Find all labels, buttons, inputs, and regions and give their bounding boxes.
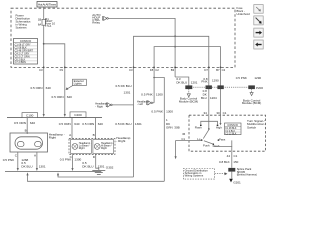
- splice pack symbol: [228, 168, 235, 172]
- lamp1 bottom terminals: [17, 152, 19, 154]
- lamp2 wire D to ground: [96, 156, 99, 170]
- contact high: [217, 125, 219, 126]
- driver2 headlamp left: [137, 99, 153, 106]
- wire driver1 to W3: [112, 104, 133, 106]
- svg-text:7.5 A: 7.5 A: [45, 24, 52, 28]
- connector name box C100: [22, 113, 38, 118]
- svg-text:640: 640: [74, 122, 79, 126]
- svg-text:CONN ID: CONN ID: [227, 124, 238, 127]
- svg-text:GRN: GRN: [166, 125, 173, 129]
- wire lamp1 park feed 0.5 ORN 640: [26, 118, 28, 133]
- svg-text:C3 12 BLK: C3 12 BLK: [225, 133, 237, 135]
- svg-text:Switch: Switch: [247, 125, 256, 129]
- svg-text:1204: 1204: [210, 96, 217, 100]
- svg-text:C3: C3: [39, 68, 43, 72]
- svg-text:Right: Right: [79, 147, 85, 150]
- svg-text:G302: G302: [106, 165, 114, 169]
- switch lever2: [204, 141, 213, 144]
- svg-text:DK BLU: DK BLU: [21, 164, 32, 168]
- high beam lamp element: [93, 140, 114, 154]
- svg-text:Systems: Systems: [16, 26, 28, 30]
- svg-text:C1: C1: [234, 154, 238, 158]
- contact lo: [201, 139, 203, 141]
- wire 30 into high: [220, 115, 222, 123]
- fuse HDLP 7.5A: [38, 17, 56, 28]
- contact flash: [200, 125, 202, 126]
- contact pass: [218, 139, 220, 141]
- low beam lamp element: [71, 140, 92, 154]
- tee1 wire: [134, 36, 209, 67]
- svg-text:- Left: - Left: [137, 102, 143, 106]
- wire pass to ground exit: [214, 140, 232, 146]
- svg-text:0.5 ORN: 0.5 ORN: [14, 121, 26, 125]
- conn id table switch: [225, 123, 242, 135]
- svg-text:0.5 ORN: 0.5 ORN: [52, 95, 64, 99]
- bulb symbol: [15, 137, 43, 149]
- turn signal multifunction switch dashed box: [189, 115, 266, 151]
- svg-text:640: 640: [98, 122, 103, 126]
- ground G302: [92, 165, 113, 174]
- svg-text:CONN ID: CONN ID: [20, 39, 31, 43]
- wire splice to ground: [231, 172, 233, 179]
- svg-text:C1: C1: [223, 111, 227, 115]
- svg-text:0.5 ORN: 0.5 ORN: [30, 86, 42, 90]
- wire fuse to terminal C3: [43, 25, 45, 67]
- svg-text:1301: 1301: [98, 165, 105, 169]
- svg-text:High: High: [216, 126, 222, 130]
- svg-text:1B: 1B: [38, 18, 42, 22]
- svg-text:0.5 PNK: 0.5 PNK: [3, 158, 15, 162]
- svg-text:1300: 1300: [166, 109, 173, 113]
- svg-text:- Right: - Right: [95, 104, 103, 108]
- bus B pnk return: [28, 174, 165, 182]
- connector line C100: [7, 117, 102, 119]
- svg-text:Relay: Relay: [92, 21, 100, 25]
- svg-text:0.5 ORN: 0.5 ORN: [59, 122, 71, 126]
- svg-text:P200: P200: [256, 86, 263, 90]
- svg-text:C7 2 BRN: C7 2 BRN: [15, 61, 26, 64]
- svg-text:6A: 6A: [38, 22, 42, 26]
- lamp1 wire C 0.5 PNK: [17, 154, 19, 169]
- wire W2 0.5 ORN 640: [64, 67, 66, 114]
- svg-text:F9: F9: [60, 68, 64, 72]
- svg-text:- Right: - Right: [116, 139, 125, 143]
- splice pin W7: [217, 85, 223, 89]
- svg-text:B7: B7: [216, 68, 220, 72]
- svg-text:640: 640: [46, 86, 51, 90]
- svg-text:Push: Push: [203, 143, 210, 147]
- junction dot: [43, 43, 45, 45]
- svg-text:C1: C1: [181, 137, 185, 141]
- svg-text:Underhood: Underhood: [237, 12, 251, 16]
- bus A dk blu return: [58, 174, 134, 177]
- svg-text:C200: C200: [74, 113, 82, 117]
- svg-text:Wiring Systems: Wiring Systems: [185, 173, 204, 177]
- wire W4b branch 0.5 PNK 1300: [154, 78, 164, 182]
- dashed stub arrow BCM right: [251, 89, 253, 92]
- nav button prev: [254, 40, 263, 49]
- splice pin W6: [206, 85, 212, 89]
- tag Ground Distribution: [183, 168, 227, 179]
- svg-text:F8: F8: [150, 68, 154, 72]
- svg-text:1301: 1301: [124, 90, 131, 94]
- dashed stub and arrow to BCM: [188, 89, 190, 93]
- wire W1 0.5 ORN 640: [43, 67, 45, 114]
- connector id table: [14, 39, 38, 65]
- lamp2 wire C 0.5 PNK 1300: [72, 156, 74, 168]
- svg-text:(Behind Harness): (Behind Harness): [237, 173, 257, 177]
- switch feed tee: [208, 115, 210, 121]
- svg-text:0.5 PNK: 0.5 PNK: [141, 92, 153, 96]
- wire W4a 0.5 PNK 1300: [153, 67, 155, 102]
- svg-text:C100: C100: [26, 113, 34, 117]
- branch wire to terminal F9: [44, 44, 65, 68]
- connector pins on fuse block border: [43, 67, 221, 68]
- note Power Distribution Schematics in Wiring Systems: [16, 13, 31, 29]
- svg-text:1300: 1300: [156, 92, 163, 96]
- svg-text:0.5 PNK: 0.5 PNK: [60, 158, 72, 162]
- svg-text:30: 30: [216, 111, 220, 115]
- svg-text:34: 34: [203, 111, 207, 115]
- svg-text:150: 150: [233, 160, 238, 164]
- svg-text:1201: 1201: [191, 80, 198, 84]
- svg-text:44: 44: [227, 154, 231, 158]
- svg-text:Pass: Pass: [219, 137, 226, 141]
- wire relay output to feed: [108, 18, 175, 77]
- lamp1 wire A 0.5 DK BLU 1301: [36, 154, 38, 169]
- svg-text:Lights: Lights: [74, 82, 83, 86]
- svg-text:Right: Right: [101, 147, 107, 150]
- svg-text:640: 640: [67, 95, 72, 99]
- ground wire 0.8 BLK 150: [231, 151, 233, 168]
- svg-text:0.8 BLK: 0.8 BLK: [219, 160, 230, 164]
- svg-text:640: 640: [30, 121, 35, 125]
- svg-text:0.5 PNK: 0.5 PNK: [151, 109, 163, 113]
- wire driver2 to W4: [153, 102, 154, 104]
- svg-text:1300: 1300: [74, 158, 81, 162]
- svg-text:1301: 1301: [39, 164, 46, 168]
- svg-text:36: 36: [182, 132, 186, 136]
- svg-text:1301: 1301: [135, 122, 142, 126]
- nav button zoom in: [254, 16, 263, 25]
- relay driver AUTO HDLP CTRL: [92, 13, 108, 25]
- wire lamp2 A 0.5 ORN 640: [71, 118, 73, 139]
- wire terminal 36: [189, 140, 201, 142]
- svg-text:B: B: [93, 133, 95, 137]
- fuse block underhood dashed box: [11, 8, 235, 67]
- wire W7 0.5 PNK 1290: [220, 67, 222, 115]
- svg-text:C2: C2: [155, 68, 159, 72]
- junction dot tee2: [174, 46, 176, 48]
- headlamp right dashed box: [69, 139, 115, 155]
- wire W3 0.5 DK BLU 1301: [133, 67, 135, 177]
- svg-text:30B: 30B: [174, 125, 179, 129]
- svg-text:C3: C3: [129, 68, 133, 72]
- svg-text:0.5 DK BLU: 0.5 DK BLU: [115, 122, 131, 126]
- splice pin P200: [248, 85, 255, 89]
- junction dot tee1: [174, 35, 176, 37]
- svg-text:1290: 1290: [254, 76, 261, 80]
- svg-text:B: B: [25, 128, 27, 132]
- svg-text:C2: C2: [222, 68, 226, 72]
- svg-text:BLU: BLU: [201, 96, 207, 100]
- BCM dashed interface line: [193, 86, 248, 88]
- tee2 wire: [154, 47, 220, 68]
- switch lever1: [208, 121, 210, 129]
- connector line2: [5, 170, 101, 172]
- wire from hot feed down to fuse: [43, 7, 45, 19]
- svg-text:DK BLU: DK BLU: [82, 164, 93, 168]
- splice pin W5: [185, 85, 192, 89]
- driver1 headlamp right: [95, 102, 112, 109]
- svg-text:G201: G201: [233, 181, 241, 185]
- nav button next: [254, 28, 263, 37]
- power label Hot At All Times: [37, 2, 57, 8]
- svg-text:0.5 PNK: 0.5 PNK: [236, 76, 247, 80]
- nav button zoom out: [254, 5, 263, 14]
- ground G201: [229, 179, 233, 183]
- lamp2 bottom terminals: [72, 154, 74, 156]
- svg-text:0.5 ORN: 0.5 ORN: [82, 122, 94, 126]
- svg-text:0.5 DK BLU: 0.5 DK BLU: [115, 84, 131, 88]
- svg-text:Right: Right: [49, 136, 56, 140]
- svg-text:DK BLU: DK BLU: [176, 80, 187, 84]
- svg-text:Hot At All Times: Hot At All Times: [38, 3, 57, 7]
- svg-text:D7: D7: [204, 68, 208, 72]
- svg-text:Module (BCM): Module (BCM): [179, 99, 198, 103]
- wire W5 0.3 DK BLU 1201 to BCM: [175, 77, 189, 86]
- svg-text:Module (BCM): Module (BCM): [242, 101, 261, 105]
- connector name box C200: [70, 112, 86, 117]
- svg-text:Flash: Flash: [213, 144, 220, 148]
- svg-text:1290: 1290: [212, 79, 219, 83]
- svg-text:B3: B3: [171, 68, 175, 72]
- headlamp left box: [10, 132, 48, 152]
- wire W6 0.8 PNK 1290: [208, 67, 210, 115]
- wire lamp2 B 0.5 ORN 640: [95, 118, 97, 139]
- tag Exterior Lights: [66, 79, 87, 90]
- svg-text:PNK: PNK: [201, 79, 207, 83]
- svg-text:Flash: Flash: [195, 126, 202, 130]
